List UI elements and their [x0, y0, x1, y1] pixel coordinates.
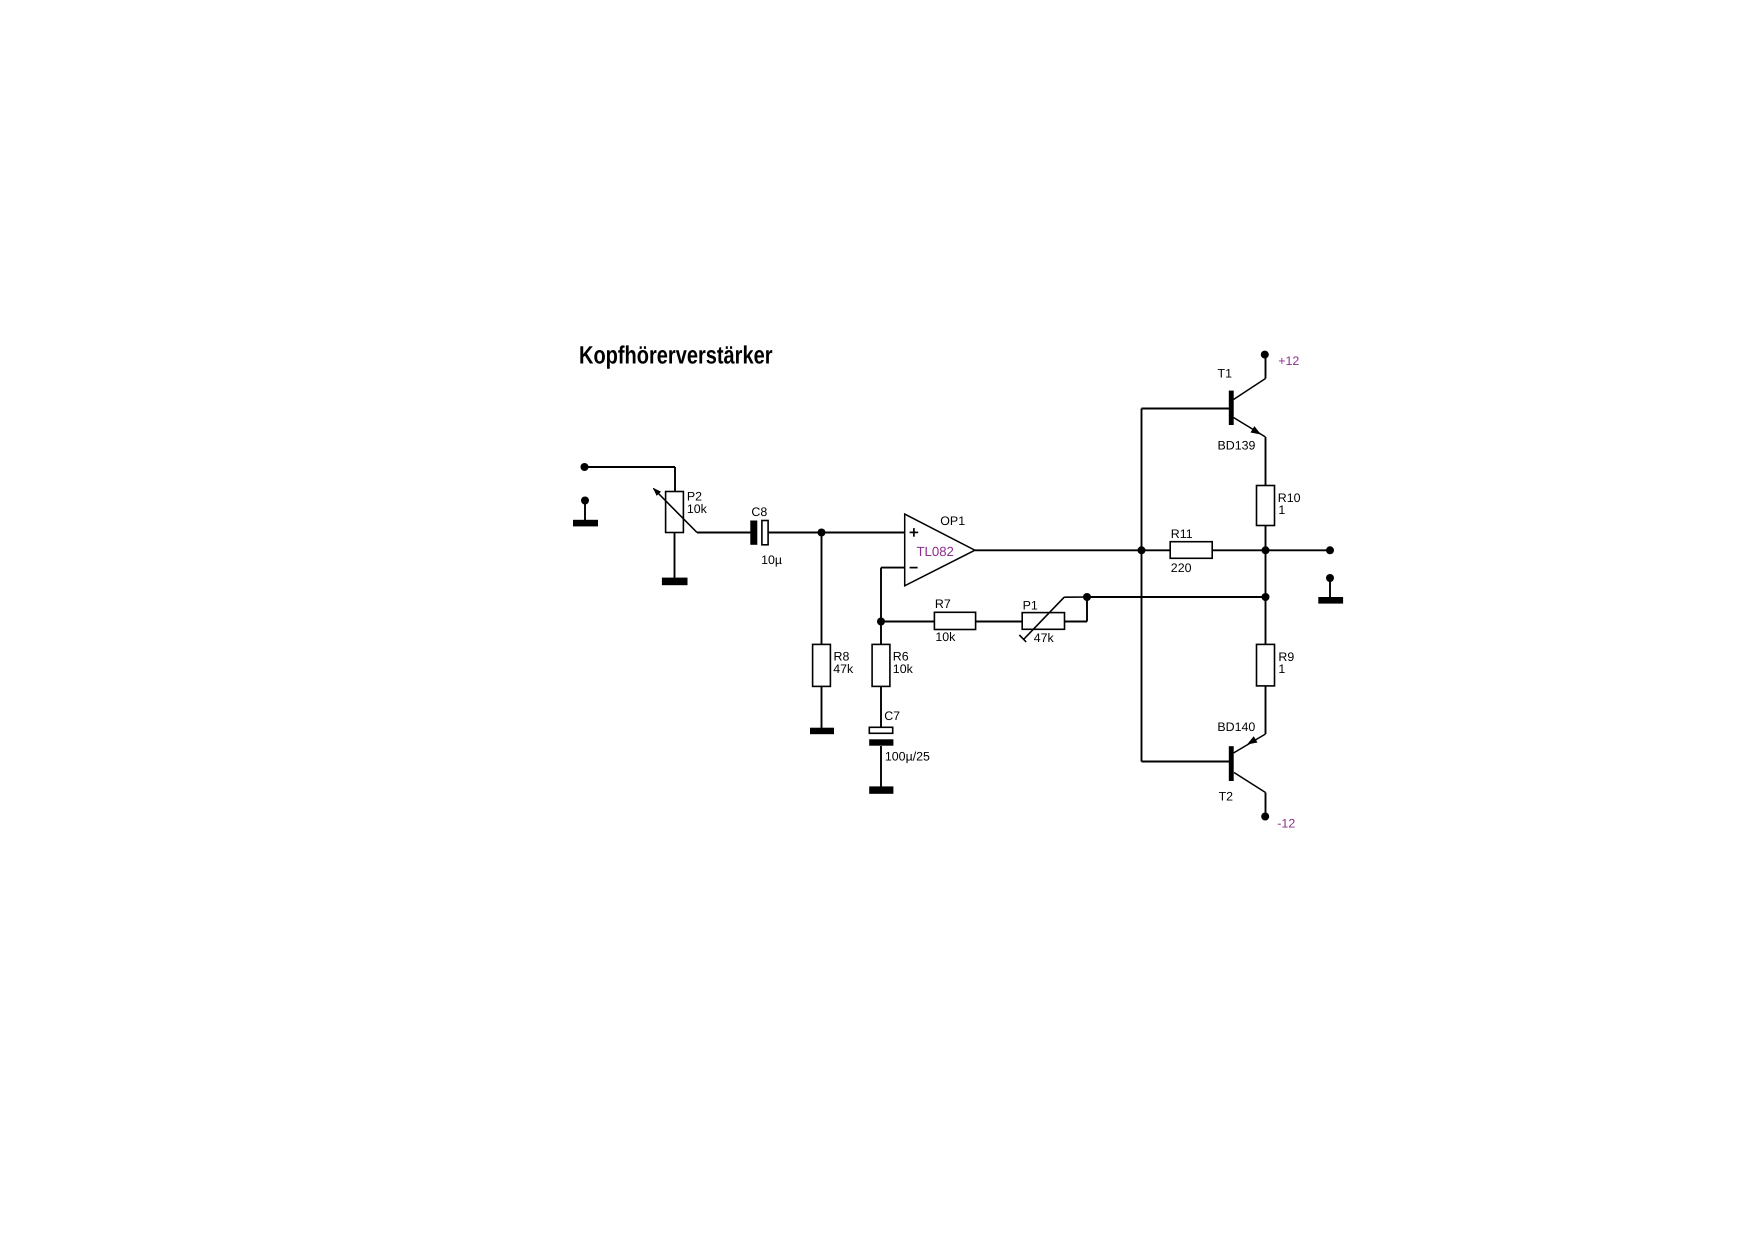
svg-text:+12: +12 — [1278, 354, 1299, 368]
svg-text:100µ/25: 100µ/25 — [885, 750, 930, 764]
svg-text:R7: R7 — [935, 597, 951, 611]
svg-text:OP1: OP1 — [940, 514, 965, 528]
svg-text:220: 220 — [1171, 561, 1192, 575]
svg-text:10k: 10k — [893, 662, 914, 676]
svg-text:BD140: BD140 — [1217, 720, 1255, 734]
svg-text:1: 1 — [1278, 662, 1285, 676]
svg-text:-12: -12 — [1277, 817, 1295, 831]
svg-text:10k: 10k — [687, 502, 708, 516]
svg-text:1: 1 — [1278, 503, 1285, 517]
svg-text:C7: C7 — [884, 709, 900, 723]
svg-text:10k: 10k — [935, 630, 956, 644]
svg-text:P1: P1 — [1023, 599, 1038, 613]
svg-text:Kopfhörerverstärker: Kopfhörerverstärker — [579, 342, 773, 370]
svg-text:T2: T2 — [1219, 790, 1234, 804]
svg-text:R11: R11 — [1171, 527, 1193, 541]
svg-text:TL082: TL082 — [917, 544, 954, 559]
svg-text:47k: 47k — [1034, 631, 1055, 645]
svg-text:C8: C8 — [751, 505, 767, 519]
svg-text:T1: T1 — [1218, 367, 1233, 381]
svg-text:47k: 47k — [833, 662, 854, 676]
svg-text:10µ: 10µ — [761, 553, 782, 567]
svg-text:BD139: BD139 — [1218, 439, 1256, 453]
